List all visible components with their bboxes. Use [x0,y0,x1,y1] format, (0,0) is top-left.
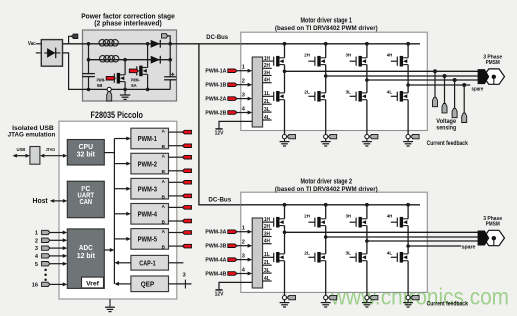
wire half-bridge leg 3 driver 2 [366,205,368,219]
ADC block [67,229,104,289]
wire phase output 2 driver 1 [326,75,479,77]
connector current sense leg 2 driver 2 [324,296,328,300]
svg-text:1: 1 [242,226,245,232]
svg-text:2L: 2L [304,90,310,96]
diode D1 [151,40,160,48]
ground leg 1 driver 1 [284,139,286,142]
svg-text:16: 16 [32,283,38,289]
wire bus to PWM-1 arrow [114,138,127,140]
svg-text:Current feedback: Current feedback [427,301,469,307]
wire CPU to peripheral bus [104,152,114,154]
junction Q1 source on return rail [123,88,127,92]
svg-text:3: 3 [183,273,186,279]
wire PWM-4B output [169,220,183,222]
svg-text:1: 1 [35,231,38,237]
capacitor C1 input [82,73,95,75]
capacitor C2 output with + mark [164,76,176,78]
connector PWM-4B [182,219,191,223]
wire DC bus inside driver 2 [241,204,420,206]
junction output node rail2 [168,58,172,62]
pin 4L driver 1 [263,119,272,121]
svg-text:PWM-1B: PWM-1B [205,83,226,89]
svg-text:spare: spare [472,86,484,92]
F28035 Piccolo box [59,121,177,299]
connector voltage sense tap 1 [433,69,437,73]
svg-text:3H: 3H [264,231,270,237]
svg-text:(based on TI DRV8402 PWM drive: (based on TI DRV8402 PWM driver) [275,186,378,193]
PFC stage box [83,30,177,101]
svg-text:2H: 2H [304,214,310,220]
wire PFC left branch vertical [88,44,90,74]
connector current sense leg 4 driver 1 [406,135,410,139]
wire bus to PWM-5 arrow [114,238,127,240]
diode D2 [151,56,160,64]
pin 3H driver 1 [263,75,272,77]
connector DC bus sense plug [168,36,170,44]
wire PWM-2B output [169,170,183,172]
wire half-bridge leg 3 driver 1 [366,44,368,58]
pin 3H driver 2 [263,236,272,238]
inductor L2 [100,56,106,62]
svg-text:Voltage: Voltage [436,119,456,125]
svg-text:PWM-4: PWM-4 [138,210,158,219]
wire PWM-4A output [169,206,183,208]
svg-text:JTAG emulation: JTAG emulation [8,132,56,139]
svg-text:CAP-1: CAP-1 [139,260,155,267]
svg-text:1L: 1L [264,252,270,258]
ground leg 2 driver 1 [325,139,327,142]
connector current sense leg 1 driver 1 [282,135,286,139]
svg-text:(based on TI DRV8402 PWM drive: (based on TI DRV8402 PWM driver) [275,25,378,32]
svg-text:5B: 5B [97,83,103,88]
junction PFC input node bottom [87,88,91,92]
svg-text:PWM-4A: PWM-4A [205,258,226,264]
wire half-bridge leg 1 driver 1 [284,44,286,58]
wire phase output 3 driver 2 [367,240,479,242]
transistor 3H driver 1 [355,57,357,66]
junction Q2 source on return rail [146,88,150,92]
svg-text:sensing: sensing [436,125,456,131]
junction PFC input node top [87,42,91,46]
svg-text:Motor driver stage 2: Motor driver stage 2 [301,179,353,186]
wire PWM-3A output [169,181,183,183]
wire peripheral bus vertical [113,139,115,284]
svg-text:DC-Bus: DC-Bus [208,196,231,203]
wire bus to PWM-2 arrow [114,163,127,165]
wire ADC to bus arrow [104,249,110,251]
junction Q1 drain on rail2 [123,58,127,62]
svg-text:2L: 2L [304,251,310,257]
wire bridge bottom output to PFC return rail [63,53,171,90]
svg-text:5: 5 [35,262,38,268]
pin 2H driver 1 [263,67,272,69]
svg-text:1H: 1H [264,56,270,62]
transistor 3L driver 1 [355,92,357,101]
transistor 1H driver 2 [273,218,275,227]
connector PWM-3B [182,194,191,198]
pin 4H driver 1 [263,82,272,84]
connector PWM-3A [182,181,191,185]
PWM-1 block [131,128,169,149]
svg-text:2H: 2H [264,224,270,230]
motor M2 3 phase PMSM [483,230,504,245]
ground leg 4 driver 1 [407,139,409,142]
svg-text:Motor driver stage 1: Motor driver stage 1 [301,18,353,25]
wire Vac input line 2 [36,52,41,54]
transistor 4L driver 2 [396,253,398,262]
wire PWM-5A output [169,232,183,234]
ground PFC return [124,89,126,95]
connector current sense leg 1 driver 2 [282,296,286,300]
pin 3L driver 1 [263,111,272,113]
svg-text:2L: 2L [264,99,270,105]
connector PFC current sense (circle + plug) [107,87,111,91]
ground leg 3 driver 2 [366,300,368,303]
svg-text:JTAG: JTAG [46,147,56,153]
svg-text:4L: 4L [387,90,393,96]
driver 1 DRV8402 pin header block [252,57,262,127]
pin 4L driver 2 [263,280,272,282]
transistor 1L driver 1 [273,92,275,101]
connector PWM-5B gate [106,76,115,80]
svg-text:3: 3 [242,93,245,99]
wire half-bridge leg 4 driver 2 [407,205,409,219]
wire PFC output branch [169,44,171,77]
svg-text:1: 1 [242,65,245,71]
svg-text:PWM-5: PWM-5 [138,235,157,244]
junction Q2 drain on top rail [146,42,150,46]
driver 2 DRV8402 pin header block [252,218,262,288]
svg-text:Vref: Vref [86,281,100,288]
svg-text:PMSM: PMSM [486,221,500,227]
svg-text:12V: 12V [215,291,224,297]
svg-text:12 bit: 12 bit [77,251,96,260]
svg-text:4H: 4H [264,239,270,245]
inductor L1 [99,40,105,46]
Motor driver stage 2 box [241,192,427,292]
wire half-bridge leg 2 driver 1 [325,44,327,58]
svg-text:3L: 3L [346,251,352,257]
supply 12V driver 2 [219,282,252,290]
svg-text:2H: 2H [264,63,270,69]
connector PWM-5A [182,231,191,235]
transistor 2H driver 1 [314,57,316,66]
svg-text:PWM-4B: PWM-4B [205,271,226,277]
svg-text:2: 2 [242,240,245,246]
wire Vac input line 1 [36,43,41,45]
wire USB double arrow [16,155,26,157]
CAP-1 block [131,255,169,270]
svg-text:4L: 4L [264,276,270,282]
node ADC input ellipsis dots [44,269,47,272]
transistor 4H driver 1 [396,57,398,66]
svg-text:QEP: QEP [141,282,155,289]
svg-text:PMSM: PMSM [486,60,500,66]
ground F28035 [109,299,111,307]
pin 2H driver 2 [263,228,272,230]
wire Host double arrow [53,200,64,202]
connector voltage sense tap 2 [443,74,447,78]
svg-text:PWM-3: PWM-3 [138,184,157,193]
svg-text:(2 phase interleaved): (2 phase interleaved) [94,20,162,27]
svg-text:CAN: CAN [80,197,93,206]
wire half-bridge leg 1 driver 2 [284,205,286,219]
svg-text:F28035 Piccolo: F28035 Piccolo [91,110,144,120]
transistor 1H driver 1 [273,57,275,66]
pin 2L driver 2 [263,264,272,266]
svg-text:Host: Host [33,198,49,205]
wire QEP to bus arrow [118,283,130,285]
ground leg 3 driver 1 [366,139,368,142]
svg-text:4H: 4H [387,53,393,59]
wire PWM-1A output [169,131,183,133]
junction output node top rail [168,42,172,46]
svg-text:PWM-2: PWM-2 [138,159,157,168]
svg-text:32 bit: 32 bit [77,150,96,159]
wire half-bridge leg 4 driver 1 [407,44,409,58]
wire phase output 2 driver 2 [326,236,479,238]
connector PWM-5B [182,244,191,248]
svg-text:PWM-2A: PWM-2A [205,97,226,103]
svg-text:4L: 4L [264,115,270,121]
pin 3L driver 2 [263,272,272,274]
connector PWM-1A [182,130,191,134]
svg-text:Current feedback: Current feedback [427,141,469,147]
connector current sense leg 3 driver 2 [365,296,369,300]
pin 1L driver 2 [263,256,274,258]
CPU block [67,140,104,166]
svg-text:3H: 3H [264,70,270,76]
wire DC bus rail (bridge output / PFC top rail to driver 1) [63,43,421,45]
svg-text:PWM-2B: PWM-2B [205,110,226,116]
svg-text:3L: 3L [346,90,352,96]
connector current sense leg 4 driver 2 [406,296,410,300]
wire phase output 4 driver 1 [408,84,470,86]
bridge rectifier BR1 [41,40,62,67]
wire CAP-1 to bus arrow [118,262,130,264]
PWM-5 block [131,229,169,250]
svg-text:DC-Bus: DC-Bus [206,34,228,41]
svg-text:2: 2 [35,238,38,244]
connector current sense leg 3 driver 1 [365,135,369,139]
svg-text:spare: spare [462,245,476,251]
wire PFC second rail [89,59,171,61]
svg-text:3H: 3H [346,214,352,220]
svg-text:PWM-3A: PWM-3A [205,230,226,236]
svg-text:PWM-: PWM- [97,78,106,83]
wire phase output 1 driver 2 [285,231,479,233]
transistor 4L driver 1 [396,92,398,101]
svg-text:Vac: Vac [28,41,36,47]
wire DC bus inside driver 1 [241,43,420,45]
wire bus to PWM-3 arrow [114,188,127,190]
svg-text:2H: 2H [304,53,310,59]
PWM-4 block [131,204,169,225]
svg-text:4H: 4H [264,78,270,84]
wire phase output 3 driver 1 [367,79,479,81]
svg-text:12V: 12V [215,130,224,136]
svg-text:PWM-3B: PWM-3B [205,244,226,250]
wire PWM-2A output [169,156,183,158]
wire QEP external with 3-wire tick [169,283,192,285]
svg-text:PWM-: PWM- [131,78,140,83]
pin 2L driver 1 [263,103,272,105]
svg-text:3L: 3L [264,107,270,113]
svg-text:5A: 5A [131,83,137,88]
svg-text:4L: 4L [387,251,393,257]
transistor 3L driver 2 [355,253,357,262]
transistor 2L driver 2 [314,253,316,262]
PWM-3 block [131,178,169,199]
wire phase output 1 driver 1 [285,70,479,72]
transistor 2L driver 1 [314,92,316,101]
connector PWM-5A gate [129,69,138,73]
I2C UART CAN block [67,181,104,218]
connector current sense leg 2 driver 1 [324,135,328,139]
pin 1L driver 1 [263,95,274,97]
svg-text:1L: 1L [264,91,270,97]
ground leg 4 driver 2 [407,300,409,303]
svg-text:3: 3 [242,254,245,260]
connector voltage sense tap 3 [453,78,457,82]
svg-text:2: 2 [242,79,245,85]
wire JTAG double arrow [43,155,63,157]
wire CAP-1 external stub [169,262,184,264]
transistor 3H driver 2 [355,218,357,227]
connector PWM-2B [182,169,191,173]
connector PWM-4A [182,206,191,210]
svg-text:1H: 1H [264,217,270,223]
transistor Q1 PWM-5B [124,60,126,75]
wire bus to PWM-4 arrow [114,213,127,215]
Vref block [82,277,104,288]
QEP block [131,276,169,292]
USB connector block [30,147,40,165]
svg-text:3H: 3H [346,53,352,59]
svg-text:PWM-1: PWM-1 [138,134,157,143]
wire DC bus drop to driver 2 [199,44,420,205]
connector PWM-1B [182,144,191,148]
svg-text:4H: 4H [387,214,393,220]
PWM-2 block [131,153,169,174]
wire DC bus junction dots driver 1 [283,42,287,46]
wire DC bus junction dots driver 2 [283,203,287,207]
pin 1H driver 1 [263,60,274,62]
junction PFC input node rail2 [87,58,91,62]
wire PWM-3B output [169,195,183,197]
ground leg 2 driver 2 [325,300,327,303]
supply 12V driver 1 [219,121,252,128]
transistor 4H driver 2 [396,218,398,227]
pin 1H driver 2 [263,221,274,223]
transistor 2H driver 2 [314,218,316,227]
wire PWM-5B output [169,245,183,247]
ground leg 1 driver 2 [284,300,286,303]
pin 4H driver 2 [263,243,272,245]
connector voltage sense tap 4 [462,83,466,87]
wire PWM-1B output [169,145,183,147]
motor M1 3 phase PMSM [483,69,504,84]
svg-text:2L: 2L [264,260,270,266]
wire half-bridge leg 2 driver 2 [325,205,327,219]
connector AC voltage sense plug [69,36,72,44]
svg-text:3L: 3L [264,268,270,274]
transistor Q2 PWM-5A [147,44,149,68]
wire phase output 4 driver 2 [408,245,461,247]
Motor driver stage 1 box [241,32,427,130]
svg-text:3: 3 [35,246,38,252]
svg-text:PWM-1A: PWM-1A [205,69,226,75]
connector PWM-2A [182,155,191,159]
transistor 1L driver 2 [273,253,275,262]
svg-text:USB: USB [17,147,26,153]
